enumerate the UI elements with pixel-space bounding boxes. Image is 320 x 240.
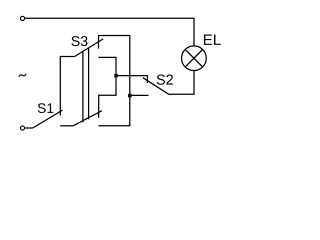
S3 linkage line 1	[82, 51, 84, 122]
terminal X1 (top left)	[20, 16, 24, 20]
node A junction dot	[114, 74, 118, 78]
wire terminal X2 to S1 pivot	[25, 127, 33, 129]
switch S3 lower blade	[73, 111, 102, 126]
source symbol ~	[19, 74, 26, 77]
wire loop: S3 upper contact, top edge, right edge, bottom segment B	[99, 36, 130, 126]
label S2	[157, 75, 173, 85]
label EL	[204, 34, 221, 44]
S2 upper throw contact stub and wire to node A	[116, 76, 147, 83]
lamp EL circle	[182, 46, 207, 71]
S3 linkage line 2	[88, 48, 90, 119]
wire lamp bottom to S2 pivot	[169, 71, 194, 95]
wire S2 lower throw from node B	[130, 94, 149, 96]
node B junction dot	[128, 94, 132, 98]
label S1	[38, 103, 54, 113]
switch S1 blade	[33, 110, 63, 128]
wire bottom segment A	[60, 125, 73, 127]
label S3	[71, 36, 87, 46]
terminal X2 (bottom left)	[20, 126, 24, 130]
switch S3 upper blade	[74, 39, 103, 57]
wire S3 upper throw down through node A and to S3 lower contact	[99, 57, 117, 117]
switch S2 blade	[143, 78, 169, 95]
wire S3 upper pivot feed and S1 contact vertical	[60, 57, 74, 116]
lamp EL cross	[185, 50, 202, 67]
wire top run from X1 down to lamp	[25, 18, 194, 46]
